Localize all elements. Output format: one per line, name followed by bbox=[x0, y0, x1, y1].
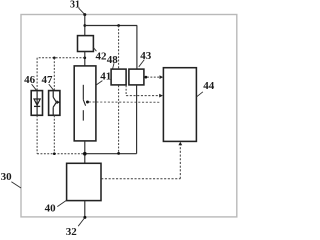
svg-text:32: 32 bbox=[66, 226, 78, 235]
wire: border top to node A bbox=[84, 15, 86, 36]
leader 46 bbox=[32, 84, 37, 90]
box 44 bbox=[163, 68, 196, 142]
node on border top (terminal 31) bbox=[83, 13, 86, 16]
node A junction (85,25.5) bbox=[83, 24, 86, 27]
leader 43 bbox=[139, 60, 145, 67]
dashed: y=25.5 node down to box 48 bbox=[118, 26, 120, 70]
rail junction main (fat) bbox=[83, 152, 87, 156]
svg-text:31: 31 bbox=[70, 0, 80, 11]
tap node in box 41 bbox=[86, 101, 89, 104]
dashed: box 48 bottom down to rail bbox=[118, 85, 120, 153]
leader 40 bbox=[57, 200, 66, 206]
wire: down from y=25.5 to box 43 top bbox=[136, 26, 138, 70]
dashed: box 47 down to rail bbox=[53, 115, 55, 153]
leader 41 bbox=[96, 81, 103, 86]
svg-text:47: 47 bbox=[42, 74, 54, 86]
dashed control: box 48 corner to box 44 bbox=[125, 85, 127, 95]
svg-text:44: 44 bbox=[203, 80, 215, 92]
wire: box 40 bottom to border (terminal 32) bbox=[84, 201, 86, 218]
svg-text:43: 43 bbox=[140, 50, 152, 62]
component box 46 (diode) bbox=[31, 91, 42, 116]
rail: solid right section bbox=[85, 153, 137, 155]
svg-text:46: 46 bbox=[24, 74, 35, 86]
leader 31 bbox=[79, 8, 85, 14]
box 43 bbox=[129, 69, 144, 85]
svg-text:30: 30 bbox=[1, 171, 13, 183]
node B junction (85,57.8) bbox=[83, 56, 86, 59]
leader 42 bbox=[93, 47, 97, 51]
component box 47 (valve w/ arrow) bbox=[49, 91, 60, 116]
dashed drop to box 46 bbox=[36, 58, 38, 91]
rail junction at 48 drop bbox=[117, 152, 120, 155]
wire: box 43 bottom down to rail bbox=[136, 85, 138, 154]
rail junction at 47 drop bbox=[53, 152, 56, 155]
dashed control line: node B left to x=37 bbox=[37, 57, 85, 59]
rail: dashed left section bbox=[37, 153, 85, 155]
svg-text:40: 40 bbox=[45, 202, 57, 214]
leader 44 bbox=[197, 92, 203, 97]
leader 48 bbox=[113, 63, 114, 69]
wire: box 42 top from node A (already), box41 bottom down to rail bbox=[84, 141, 86, 164]
wire: node A horizontal to x=137 bbox=[85, 25, 137, 27]
wire: box 42 to box 41 bbox=[84, 52, 86, 67]
dashed drop to box 47 bbox=[53, 58, 55, 91]
svg-text:42: 42 bbox=[96, 51, 108, 63]
dashed: box 46 down to rail bbox=[36, 115, 38, 153]
node junction on y=25.5 at x=118.5 bbox=[117, 24, 120, 27]
leader 47 bbox=[49, 84, 54, 90]
box 42 bbox=[78, 36, 94, 52]
leader 32 bbox=[78, 218, 84, 226]
svg-text:48: 48 bbox=[107, 54, 119, 66]
frame 30 (outer border) bbox=[21, 15, 237, 217]
dashed control: box 43 to box 44 bbox=[145, 76, 148, 79]
svg-text:41: 41 bbox=[100, 70, 111, 82]
node on dashed line at x=54.3 bbox=[53, 57, 56, 60]
valve symbol in 47 bbox=[52, 91, 54, 97]
node on border bottom (terminal 32) bbox=[83, 216, 86, 219]
box 41 (cylinder/switch) bbox=[74, 66, 96, 141]
box 40 bbox=[67, 163, 101, 200]
dashed control: box 41 tap to box 44 bbox=[89, 101, 161, 103]
switch symbol in box 41 bbox=[82, 85, 84, 100]
box 48 bbox=[111, 69, 126, 85]
leader 30 bbox=[11, 182, 21, 188]
dashed: box 40 right to box 44 bottom bbox=[101, 178, 180, 180]
diode symbol in 46 bbox=[36, 91, 38, 106]
